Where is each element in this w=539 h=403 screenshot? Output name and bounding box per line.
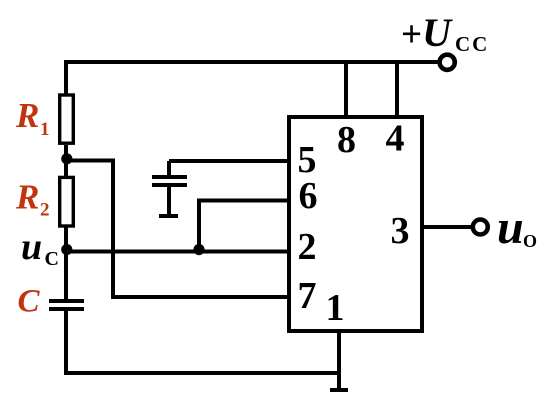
svg-text:6: 6 — [299, 175, 318, 217]
svg-text:2: 2 — [298, 226, 317, 268]
svg-text:4: 4 — [386, 118, 405, 160]
svg-text:1: 1 — [326, 287, 345, 329]
svg-text:3: 3 — [391, 210, 410, 252]
svg-text:7: 7 — [298, 275, 317, 317]
svg-text:C: C — [18, 284, 41, 320]
svg-text:8: 8 — [337, 119, 356, 161]
